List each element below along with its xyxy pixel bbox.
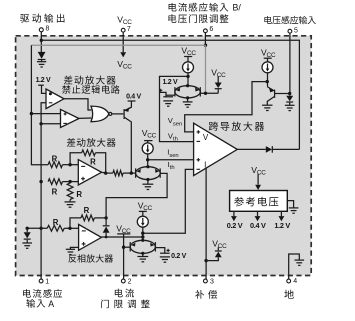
svg-text:B/: B/	[233, 2, 242, 12]
pin 8 驱动输出 (drive output) terminal	[39, 28, 43, 32]
node: bus / inverting amp - row	[39, 227, 42, 230]
node: pin2 / VCC tap / M3 left	[122, 246, 125, 249]
node: diff amp - input / feedback	[68, 163, 71, 166]
node: diff amp + / ground divider	[68, 180, 71, 183]
ground under M2	[147, 180, 149, 184]
svg-text:1.2 V: 1.2 V	[274, 221, 290, 230]
node: bus / diff amp + row	[39, 180, 42, 183]
anti-sat diode (inverting amp)	[105, 218, 107, 225]
wire source to M1 left bar	[166, 94, 175, 96]
node: pin8/drive-rail junction	[40, 39, 43, 42]
svg-text:6: 6	[209, 26, 213, 33]
svg-text:VCC: VCC	[117, 15, 132, 27]
current source I4	[137, 216, 148, 227]
wire M2 right to inverting amp node (hook)	[106, 173, 167, 218]
resistor R (inverting amp input)	[47, 225, 64, 231]
node: Ith hook junction	[141, 232, 144, 235]
label 差动放大器 (differential amplifier) top	[64, 76, 116, 85]
current mirror M1 (threshold)	[175, 86, 200, 98]
svg-text:3: 3	[210, 278, 214, 285]
node: Vsen takeoff	[266, 80, 269, 83]
pin 4 地 (ground) terminal	[289, 254, 300, 279]
inverting amp U3 反相放大器	[79, 224, 102, 250]
wire Isen to transconductance amp	[148, 159, 194, 161]
current mirror M2 (Ith)	[136, 167, 161, 180]
svg-text:0.2 V: 0.2 V	[227, 221, 243, 230]
node: pin5 / Q2 base	[288, 92, 291, 95]
svg-text:R: R	[76, 190, 82, 199]
svg-text:0.4 V: 0.4 V	[126, 93, 141, 100]
ground under drive clamp diode	[41, 60, 43, 62]
1.2V battery source to ground	[163, 96, 173, 98]
node: Isen takeoff	[146, 158, 149, 161]
diode clamp on drive output	[38, 52, 46, 59]
reference outputs 0.2/0.4/1.2 V	[233, 211, 235, 216]
resistor R (diff amp out to Ith mirror)	[113, 170, 123, 175]
svg-text:8: 8	[46, 26, 50, 33]
svg-text:R: R	[90, 158, 96, 167]
wire M3 right to 0.2V source	[155, 248, 164, 253]
diff amp U2	[78, 160, 101, 185]
current source I2 (threshold)	[183, 62, 194, 73]
wire pin8 down to drive rail	[40, 32, 42, 52]
IC boundary dashed border	[16, 36, 312, 276]
IC body background (gray)	[16, 36, 312, 276]
wire comparator B output to NOR gate	[79, 117, 91, 119]
svg-text:R: R	[52, 154, 58, 163]
ground on inverting amp + input	[70, 247, 78, 249]
ground under Q2	[262, 104, 272, 106]
transistor Q2 (pin5 emitter follower)	[267, 87, 274, 91]
label 差动放大器 (differential amplifier)	[67, 138, 116, 147]
svg-text:A: A	[48, 299, 54, 309]
current mirror M3	[130, 240, 155, 253]
pin 6 电流感应输入B/电压门限调整 terminal	[169, 3, 229, 12]
gray net wire: pin6 down to threshold mirror	[205, 45, 207, 93]
comparator B (disable logic)	[61, 109, 80, 127]
0.2V battery source	[160, 252, 170, 254]
node: pin6 / M1	[204, 92, 207, 95]
wire amp lower output to pin 3	[205, 168, 207, 279]
NOR gate U1	[91, 106, 109, 122]
wire Vth hook: down left side to transconductance amp	[160, 76, 194, 141]
node: inverting amp output junction	[141, 235, 144, 238]
wire diff amp output	[102, 171, 106, 174]
gray net wire: pin6 sense-B distribution to left bus	[31, 44, 205, 46]
svg-text:7: 7	[127, 26, 131, 33]
wire NOR output to transistor Q1 base	[112, 113, 124, 115]
node: Q1 collector / Ith mirror input	[130, 171, 133, 174]
node: inverting amp - input / feedback	[68, 227, 71, 230]
svg-text:5: 5	[294, 27, 298, 34]
reference voltage block 参考电压	[230, 191, 288, 212]
wire: sense-A bus pin1 up to amplifiers	[41, 103, 46, 279]
svg-text:2: 2	[128, 278, 132, 285]
resistor R (diff amp + input)	[48, 179, 62, 185]
pin 1 电流感应输入A terminal	[39, 279, 43, 283]
wire pin7 VCC into IC with arrow	[122, 32, 124, 52]
wire M1 right to pin6 node	[200, 92, 218, 94]
wire Vsen hook to transconductance amp	[185, 82, 268, 132]
svg-text:4: 4	[293, 278, 297, 285]
wire pin5 down to follower base	[289, 33, 291, 93]
svg-text:1.2 V: 1.2 V	[162, 79, 177, 86]
svg-text:R: R	[52, 187, 58, 196]
ground under divider R	[69, 200, 71, 202]
resistor R (diff amp - input)	[48, 162, 62, 168]
node: bus / comparator B - input	[39, 122, 42, 125]
comparator A (disable logic)	[46, 89, 64, 109]
svg-text:1.2 V: 1.2 V	[36, 77, 51, 84]
current source I1 (Isen)	[142, 143, 153, 154]
wire Ith input from inverting amp node	[143, 169, 194, 233]
svg-text:V: V	[203, 133, 209, 142]
svg-text:0.4 V: 0.4 V	[250, 221, 266, 230]
clamp diode on sense-A row	[26, 227, 29, 230]
node: threshold source / Vth hook	[186, 75, 189, 78]
feedback resistor R (inverting amp)	[70, 218, 81, 228]
label 禁止逻辑电路 (disable logic circuit)	[62, 85, 120, 94]
node: pin6 / sense-B gray net junction	[204, 44, 207, 47]
ground on reference block	[287, 201, 293, 208]
ground under pin5 diode	[285, 104, 295, 106]
transistor Q1 (0.4V clamp, PNP)	[123, 109, 125, 119]
pin 2 电流门限调整 terminal	[123, 247, 125, 279]
current source I3 (Vsen follower bias)	[262, 62, 273, 73]
pin 3 补偿 terminal	[204, 279, 208, 283]
ground under M3	[142, 253, 144, 256]
node: pin3 / VCC clamp	[204, 259, 207, 262]
wire comparator A output to NOR gate	[64, 99, 91, 110]
wire: left sense-B bus down to diff amp input	[31, 45, 48, 165]
node: bus to comparator B + input	[30, 112, 33, 115]
transconductance amplifier U4 跨导放大器	[194, 123, 238, 175]
resistor R to ground (divider)	[67, 183, 73, 200]
wire pin6 down (crosses drive rail)	[204, 33, 206, 45]
node: diff amp output / feedback	[104, 171, 107, 174]
svg-text:R: R	[84, 206, 90, 215]
drive rail wire across top and down right side	[41, 40, 299, 149]
pin 5 电压感应输入 (voltage sense input) terminal	[264, 16, 315, 24]
wire inverting amp output row	[101, 236, 142, 238]
svg-text:1: 1	[45, 278, 49, 285]
node: feedback / M2 hook / clamp diode	[104, 216, 107, 219]
output diode of transconductance amp	[237, 148, 265, 150]
feedback resistor R (diff amp)	[70, 153, 82, 165]
clamp diode on pin5	[289, 94, 291, 96]
label 反相放大器 (inverting amplifier)	[68, 254, 113, 262]
svg-text:0.2 V: 0.2 V	[171, 253, 186, 260]
ground under M1	[187, 98, 189, 102]
wire bus to comparator B + input	[31, 113, 60, 115]
svg-text:R: R	[53, 218, 59, 227]
